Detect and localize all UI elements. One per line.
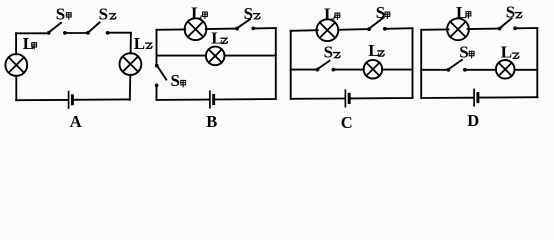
label S yi C xyxy=(324,42,340,61)
svg-text:C: C xyxy=(341,113,353,130)
wire top C xyxy=(291,28,413,31)
wire middle C xyxy=(291,69,413,71)
lamp L jia D xyxy=(447,18,469,40)
wire right B xyxy=(275,28,277,99)
battery D xyxy=(474,89,478,105)
switch S yi D xyxy=(498,18,517,30)
label S jia A xyxy=(56,5,71,24)
wire bottom B xyxy=(157,98,276,101)
svg-text:S: S xyxy=(99,5,108,24)
wire left A xyxy=(15,33,17,100)
wire top A xyxy=(16,32,131,35)
svg-text:L: L xyxy=(134,34,145,53)
svg-text:L: L xyxy=(23,34,34,53)
label L jia C xyxy=(324,5,340,24)
switch S1 (S jia) A xyxy=(47,23,67,35)
switch S jia B (left side) xyxy=(155,64,167,88)
wire middle B xyxy=(157,55,276,57)
battery B xyxy=(210,91,214,107)
wire left D xyxy=(420,30,422,98)
svg-text:S: S xyxy=(171,71,180,90)
label S jia D xyxy=(459,42,474,61)
lamp L jia C xyxy=(317,19,339,41)
svg-text:L: L xyxy=(324,5,335,24)
label S yi A xyxy=(99,5,116,24)
lamp L jia B xyxy=(185,18,207,40)
label L yi A xyxy=(134,34,152,53)
svg-text:B: B xyxy=(206,112,217,130)
wire middle D xyxy=(421,69,537,71)
wire left C xyxy=(290,31,292,99)
wire bottom A xyxy=(16,98,130,101)
wire bottom D xyxy=(421,96,537,99)
wire bottom C xyxy=(291,97,413,100)
battery C xyxy=(345,90,349,106)
lamp L yi D xyxy=(496,60,515,79)
wire top B xyxy=(157,28,276,30)
svg-text:S: S xyxy=(324,42,333,61)
label L jia A xyxy=(23,34,37,53)
svg-text:S: S xyxy=(244,4,253,23)
lamp L yi A xyxy=(119,53,141,75)
switch S jia D xyxy=(447,60,467,72)
label L yi C xyxy=(368,41,384,60)
switch S2 (S yi) A xyxy=(86,23,110,35)
wire right C xyxy=(412,28,414,98)
svg-text:S: S xyxy=(459,42,468,61)
label L yi B xyxy=(211,29,227,48)
svg-text:L: L xyxy=(501,43,512,62)
lamp L jia A xyxy=(5,54,27,76)
label L yi D xyxy=(501,43,519,62)
svg-text:D: D xyxy=(467,111,479,130)
wire top D xyxy=(421,28,537,30)
switch S yi C xyxy=(316,61,336,72)
label S jia C xyxy=(376,3,390,22)
lamp L yi B xyxy=(206,47,225,66)
wire right D xyxy=(536,28,538,97)
label S jia B xyxy=(171,71,186,90)
svg-text:S: S xyxy=(506,3,515,22)
label S yi B xyxy=(244,4,260,23)
switch S yi B xyxy=(235,19,255,30)
label L jia D xyxy=(456,3,471,22)
label S yi D xyxy=(506,3,522,22)
svg-text:A: A xyxy=(70,112,82,130)
svg-text:L: L xyxy=(191,3,202,22)
switch S jia C xyxy=(367,17,387,31)
label L jia B xyxy=(191,3,207,22)
wire right A xyxy=(130,33,131,100)
wire left B xyxy=(156,30,158,100)
svg-text:S: S xyxy=(376,3,385,22)
lamp L yi C xyxy=(364,60,383,79)
battery A xyxy=(69,92,73,108)
svg-text:S: S xyxy=(56,5,65,24)
